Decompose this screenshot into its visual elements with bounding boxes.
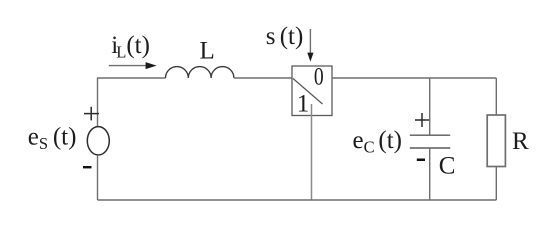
- current arrow i_L(t): [109, 62, 157, 69]
- inductor L: [166, 67, 234, 78]
- resistor R: [487, 115, 505, 167]
- svg-text:eC (t): eC (t): [353, 127, 402, 157]
- svg-text:eS (t): eS (t): [28, 124, 77, 154]
- svg-text:iL(t): iL(t): [111, 32, 150, 62]
- svg-text:s(t): s(t): [266, 23, 304, 50]
- control arrow for s(t): [307, 29, 313, 62]
- wire: left column from source top to top rail: [97, 78, 99, 127]
- wire: source bottom lead: [97, 155, 99, 200]
- wire: bottom rail: [98, 199, 497, 201]
- wire: capacitor bottom lead: [429, 148, 431, 200]
- source minus mark: [83, 166, 92, 168]
- switch lever (diagonal): [293, 79, 323, 105]
- source plus mark: [84, 107, 99, 121]
- voltage source e_S(t): [87, 127, 109, 155]
- svg-text:L: L: [200, 37, 215, 64]
- wire: switch pole 1 down to bottom rail: [311, 104, 313, 200]
- svg-text:R: R: [512, 128, 529, 155]
- svg-text:C: C: [439, 153, 456, 180]
- wire: top rail inductor to switch: [234, 77, 292, 79]
- svg-text:1: 1: [297, 90, 310, 117]
- wire: top rail from left corner to inductor: [97, 77, 166, 79]
- wire: capacitor top lead: [429, 78, 431, 135]
- switch box: [292, 66, 332, 116]
- capacitor C bottom plate: [410, 147, 450, 149]
- wire: resistor top lead: [495, 78, 497, 115]
- capacitor plus mark: [415, 113, 429, 127]
- wire: top rail switch to resistor corner: [332, 77, 496, 79]
- capacitor C top plate: [410, 134, 450, 136]
- wire: resistor bottom lead: [495, 167, 497, 201]
- capacitor minus mark: [417, 159, 425, 162]
- svg-text:0: 0: [314, 64, 324, 91]
